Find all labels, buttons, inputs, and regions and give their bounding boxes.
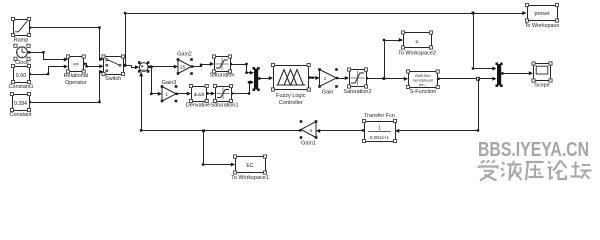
svg-text:To Workspace1: To Workspace1 — [231, 175, 269, 181]
svg-text:Switch: Switch — [105, 76, 121, 82]
wire fuzzy logic controller to gain — [308, 76, 319, 80]
wire gain1 feedback to sum bottom input — [139, 72, 301, 132]
svg-text:EC: EC — [246, 163, 253, 169]
svg-text:Controller: Controller — [279, 100, 303, 106]
svg-text:Gain2: Gain2 — [177, 51, 192, 57]
svg-text:am_: am_ — [419, 82, 428, 87]
derivative block du/dt — [186, 84, 210, 108]
node error line tee — [150, 65, 153, 68]
node rail tee at x473 — [471, 11, 474, 14]
relational operator block <= — [64, 55, 88, 86]
wire saturation2 to s-function — [366, 77, 409, 81]
s-function block AMESim — [406, 70, 439, 95]
svg-text:Saturation: Saturation — [209, 73, 234, 79]
wire derivative to saturation1 — [206, 92, 215, 96]
svg-text:BBS.IYEYA.CN: BBS.IYEYA.CN — [478, 139, 589, 161]
watermark hanzi ai — [479, 161, 498, 181]
sum block (+/-) — [138, 61, 149, 72]
wire gain3 to derivative — [176, 92, 192, 96]
wire constant1 to relational operator input 2 — [29, 65, 69, 76]
wire saturation to mux input 1 — [230, 63, 255, 75]
wire constant 0.284 to switch input 3 — [29, 70, 104, 103]
node switch output tee to top rail — [123, 64, 126, 67]
saturation block Saturation2 — [343, 68, 371, 95]
constant block Constant value 0.284 — [9, 92, 31, 118]
svg-text:1: 1 — [165, 92, 168, 97]
node feedback tee to To Workspace1 — [202, 129, 205, 132]
saturation block Saturation1 — [210, 84, 238, 108]
saturation block Saturation — [209, 55, 234, 79]
svg-text:1: 1 — [378, 126, 381, 132]
wire relational operator to switch input 2 — [83, 63, 103, 69]
svg-text:Fuzzy Logic: Fuzzy Logic — [276, 93, 306, 99]
svg-text:0.284: 0.284 — [14, 101, 27, 107]
watermark hanzi ye — [501, 161, 522, 181]
scope block — [532, 62, 552, 89]
to workspace block EC (To Workspace1) — [231, 155, 269, 181]
svg-text:Gain: Gain — [322, 90, 334, 96]
wire rail drop to mux1 input 1 — [472, 14, 497, 71]
wire clock to relational operator input 1 — [28, 51, 68, 61]
svg-text:-1: -1 — [308, 128, 313, 133]
wire gain to saturation2 — [336, 76, 349, 80]
svg-text:0.60: 0.60 — [16, 73, 27, 79]
watermark hanzi tan — [571, 162, 592, 179]
svg-text:25: 25 — [180, 65, 186, 70]
source block Clock — [14, 44, 30, 66]
wire feedback tee down to To Workspace1 — [202, 131, 235, 167]
svg-text:Transfer Fcn: Transfer Fcn — [364, 113, 395, 119]
svg-text:Constant: Constant — [9, 112, 31, 118]
wire feedback drop to transfer fcn — [395, 79, 479, 133]
svg-text:preset: preset — [535, 11, 550, 17]
to workspace block u (To Workspace2) — [398, 31, 436, 57]
svg-text:Saturation1: Saturation1 — [210, 103, 238, 109]
source block Ramp (selected) — [11, 17, 30, 43]
node s-function output tee — [477, 77, 480, 80]
wire gain2 to saturation — [191, 62, 214, 68]
fuzzy logic controller block — [271, 63, 310, 106]
gain block Gain2 value 25 — [177, 51, 193, 74]
watermark hanzi lun — [548, 161, 567, 180]
wire mux1 to scope — [501, 71, 533, 75]
gain block Gain value 1 — [318, 68, 338, 95]
wire saturation1 to mux input 2 — [231, 80, 255, 95]
svg-text:Saturation2: Saturation2 — [343, 89, 371, 95]
svg-text:Ramp: Ramp — [14, 38, 29, 44]
wire transfer fcn to gain1 — [316, 129, 365, 133]
svg-text:0.001s+1: 0.001s+1 — [370, 135, 389, 140]
wire s-function output to mux1 input 2 — [437, 77, 496, 81]
svg-text:To Workspace: To Workspace — [525, 23, 560, 29]
wire mux to fuzzy logic controller — [258, 76, 273, 80]
gain block Gain3 value 1 — [161, 80, 178, 102]
svg-text:Scope: Scope — [534, 82, 550, 88]
wire ramp to switch input 1 — [29, 26, 104, 61]
svg-text:du/dt: du/dt — [194, 92, 205, 97]
wire top rail to To Workspace preset — [124, 11, 527, 66]
wire switch output to sum — [122, 64, 139, 69]
svg-text:Constant1: Constant1 — [8, 84, 33, 90]
wire sum output error line to gain2 — [147, 65, 178, 69]
svg-text:Relational: Relational — [64, 73, 88, 79]
constant block Constant1 value 0.60 — [8, 64, 33, 90]
svg-text:Gain1: Gain1 — [301, 141, 316, 147]
mux block (2-in) — [253, 67, 260, 91]
gain block Gain1 value -1 (mirrored) — [300, 120, 318, 146]
svg-text:1: 1 — [324, 76, 327, 82]
wire error drop to gain3 — [150, 67, 162, 96]
svg-text:Derivative: Derivative — [186, 103, 210, 109]
wire tee up to To Workspace2 — [383, 38, 403, 79]
svg-text:Operator: Operator — [65, 80, 87, 86]
svg-text:u: u — [416, 39, 419, 45]
mux block Mux1 (2-in to scope) — [496, 63, 503, 88]
node saturation2 output tee — [382, 77, 385, 80]
svg-text:S-Function: S-Function — [410, 89, 437, 95]
watermark text BBS.IYEYA.CN — [478, 139, 589, 161]
to workspace block preset (To Workspace) — [525, 3, 560, 29]
svg-text:<=: <= — [73, 62, 79, 68]
svg-text:To Workspace2: To Workspace2 — [398, 51, 436, 57]
watermark hanzi ya — [526, 162, 544, 181]
svg-text:Gain3: Gain3 — [162, 80, 177, 86]
transfer fcn block 1/(0.001s+1) — [362, 113, 396, 142]
switch block Switch — [102, 55, 125, 82]
